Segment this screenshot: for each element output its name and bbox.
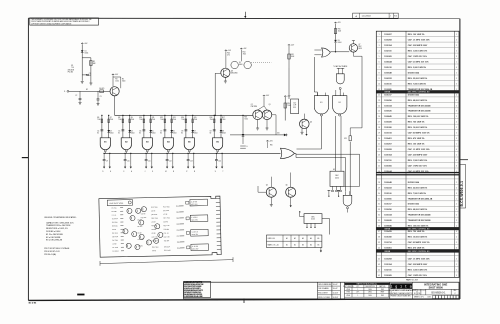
svg-text:R2 68K: R2 68K [112, 211, 117, 213]
svg-text:C13: C13 [190, 161, 193, 163]
svg-text:MFD 35V: MFD 35V [192, 248, 198, 250]
svg-text:3639: 3639 [358, 48, 362, 50]
svg-text:W506: W506 [346, 295, 350, 297]
svg-text:5: 5 [456, 78, 457, 80]
svg-text:4: 4 [456, 122, 457, 124]
svg-text:PULSE): PULSE) [68, 72, 74, 74]
svg-text:C9 82: C9 82 [152, 250, 156, 252]
svg-text:1002222: 1002222 [384, 78, 392, 80]
svg-text:+10V: +10V [269, 140, 273, 142]
svg-text:3: 3 [456, 220, 457, 222]
svg-text:N: N [173, 171, 174, 173]
svg-text:1: 1 [456, 198, 457, 200]
svg-text:+10V: +10V [287, 96, 291, 98]
svg-text:1105308: 1105308 [384, 237, 391, 239]
svg-text:1300365: 1300365 [384, 275, 392, 277]
svg-text:C5 82: C5 82 [151, 221, 155, 223]
svg-text:C2: C2 [75, 95, 77, 97]
svg-text:D7 664: D7 664 [138, 245, 143, 247]
svg-text:R15: R15 [194, 117, 197, 119]
svg-text:29: 29 [378, 187, 380, 189]
svg-text:1301954: 1301954 [384, 263, 392, 266]
svg-text:D10 664: D10 664 [164, 229, 170, 231]
svg-text:12: 12 [378, 94, 380, 96]
svg-text:3: 3 [456, 193, 457, 195]
svg-text:R16 7500: R16 7500 [163, 206, 170, 208]
svg-text:+10V: +10V [115, 74, 119, 76]
svg-text:RES. 7,500 1/4W 5%: RES. 7,500 1/4W 5% [408, 82, 427, 85]
svg-text:PARTS LIST: PARTS LIST [406, 278, 419, 281]
svg-text:R2: R2 [93, 61, 95, 63]
svg-text:B3: B3 [146, 141, 148, 143]
svg-text:R25: R25 [176, 224, 179, 226]
svg-text:RES. 1,500 1/4W 10%: RES. 1,500 1/4W 10% [408, 268, 428, 271]
svg-text:D664: D664 [85, 53, 89, 55]
svg-text:RES. 10,000 1/4W 5%: RES. 10,000 1/4W 5% [408, 126, 428, 129]
svg-text:OMNIB: OMNIB [384, 92, 391, 94]
svg-text:1000048: 1000048 [384, 71, 392, 74]
svg-text:DIODE D662: DIODE D662 [408, 94, 419, 96]
svg-text:C 15 6.8: C 15 6.8 [192, 246, 198, 248]
svg-text:DESCRIPTION: DESCRIPTION [366, 286, 375, 288]
svg-text:3: 3 [456, 165, 457, 167]
svg-text:470: 470 [227, 54, 230, 56]
svg-text:R22: R22 [176, 206, 179, 208]
svg-text:10-12-67: 10-12-67 [333, 297, 339, 299]
svg-text:D664: D664 [239, 64, 243, 66]
svg-text:B-CS-W506-0-1: B-CS-W506-0-1 [460, 181, 464, 207]
svg-text:10-9-67: 10-9-67 [333, 288, 338, 290]
svg-text:R16: R16 [210, 117, 213, 119]
svg-text:BS-W506-0-1: BS-W506-0-1 [432, 292, 447, 294]
svg-text:D664: D664 [131, 133, 135, 135]
svg-text:GND LUG: GND LUG [268, 238, 276, 240]
svg-text:100K: 100K [291, 56, 295, 58]
svg-text:C8 82: C8 82 [152, 233, 156, 235]
svg-text:C8: C8 [181, 131, 183, 133]
svg-text:D6 D664: D6 D664 [163, 210, 169, 212]
svg-text:1301954: 1301954 [384, 154, 392, 157]
svg-text:MFD 35V: MFD 35V [191, 204, 197, 206]
svg-text:Q5: Q5 [266, 185, 268, 187]
svg-text:1105100: 1105100 [384, 193, 391, 195]
svg-text:Q8: Q8 [231, 71, 233, 73]
svg-text:C5: C5 [118, 131, 120, 133]
svg-text:CAP. 220 MMFD 500V: CAP. 220 MMFD 500V [408, 263, 428, 266]
svg-text:1000020: 1000020 [384, 220, 392, 222]
svg-text:25: 25 [378, 165, 380, 167]
svg-text:1300208: 1300208 [384, 259, 392, 261]
svg-text:7500: 7500 [160, 119, 164, 121]
svg-text:Q6: Q6 [286, 185, 288, 187]
svg-text:DIODE D662: DIODE D662 [408, 204, 419, 206]
svg-text:32: 32 [378, 204, 380, 206]
svg-text:2: 2 [379, 40, 380, 42]
svg-text:2: 2 [456, 264, 457, 266]
svg-text:D11 664: D11 664 [164, 240, 170, 242]
svg-text:1105308: 1105308 [384, 127, 391, 129]
svg-text:R14: R14 [181, 117, 184, 119]
svg-text:4: 4 [456, 149, 457, 151]
svg-text:33: 33 [378, 209, 380, 211]
svg-text:2: 2 [456, 127, 457, 129]
svg-text:B3: B3 [302, 245, 304, 247]
svg-text:E2: E2 [86, 89, 88, 91]
svg-text:15: 15 [378, 111, 380, 113]
svg-text:DESC: DESC [368, 292, 372, 294]
svg-text:1300334: 1300334 [384, 214, 392, 217]
svg-text:R3: R3 [115, 79, 117, 81]
svg-text:E: E [110, 171, 111, 173]
svg-text:D10: D10 [277, 133, 280, 135]
svg-text:B4: B4 [310, 245, 312, 247]
svg-text:1000020: 1000020 [384, 111, 392, 113]
svg-text:16: 16 [378, 116, 380, 118]
svg-text:MFD 35V: MFD 35V [191, 219, 197, 221]
svg-text:UNLESS OTHERWISE INDICATED:: UNLESS OTHERWISE INDICATED: [44, 216, 77, 219]
svg-text:1500: 1500 [115, 81, 119, 83]
svg-text:TRANSISTOR DEC6534B: TRANSISTOR DEC6534B [408, 214, 431, 217]
svg-text:R9 750: R9 750 [137, 226, 142, 228]
svg-text:R6: R6 [97, 117, 99, 119]
svg-text:7500: 7500 [173, 119, 177, 121]
svg-text:CAP. 220 MMFD 500V: CAP. 220 MMFD 500V [408, 154, 428, 157]
svg-text:14: 14 [378, 105, 380, 107]
svg-text:B6: B6 [216, 141, 218, 143]
svg-text:3: 3 [456, 111, 457, 113]
svg-text:1103805: 1103805 [384, 198, 391, 200]
svg-text:CAP. 1 MFD 35V 10%: CAP. 1 MFD 35V 10% [408, 55, 427, 58]
svg-text:K: K [152, 171, 153, 173]
svg-text:R25: R25 [344, 138, 347, 140]
svg-text:EQUIPMENT CORPORATION: EQUIPMENT CORPORATION [389, 289, 414, 292]
svg-text:2: 2 [456, 72, 457, 74]
svg-text:R1: R1 [71, 65, 73, 67]
svg-text:FIRST USED ON: FIRST USED ON [343, 286, 353, 288]
svg-text:1105317: 1105317 [384, 94, 391, 96]
svg-text:1300296: 1300296 [384, 209, 392, 211]
svg-text:ONE SHOT W506: ONE SHOT W506 [109, 203, 123, 205]
svg-text:30: 30 [378, 193, 380, 195]
svg-text:B2: B2 [294, 245, 296, 247]
svg-text:R14: R14 [243, 51, 246, 53]
svg-text:DEC2894: DEC2894 [251, 106, 257, 108]
svg-text:7500: 7500 [118, 119, 122, 121]
svg-text:C 15 6.8: C 15 6.8 [191, 201, 197, 203]
svg-text:G-5DPER8MH1DGALG3BE: G-5DPER8MH1DGALG3BE [184, 295, 204, 298]
svg-text:RES. 7,500 1/4W 5%: RES. 7,500 1/4W 5% [408, 192, 427, 195]
svg-text:1302110: 1302110 [384, 269, 391, 271]
svg-text:RES. 22,000 1/4W 5%: RES. 22,000 1/4W 5% [408, 186, 428, 189]
svg-text:38: 38 [378, 237, 380, 239]
svg-text:H: H [131, 171, 132, 173]
svg-text:DIODE D664: DIODE D664 [408, 71, 420, 74]
svg-text:R23: R23 [176, 212, 179, 214]
svg-text:8: 8 [379, 72, 380, 74]
svg-text:NUMBER: NUMBER [421, 290, 426, 292]
svg-text:E1: E1 [320, 102, 322, 104]
svg-text:T: T [222, 171, 223, 173]
svg-text:B2: B2 [125, 141, 127, 143]
svg-text:34: 34 [378, 215, 380, 217]
svg-text:C10 82: C10 82 [163, 221, 168, 223]
svg-text:1: 1 [379, 34, 380, 36]
svg-text:RES. 100 1/4W 5%: RES. 100 1/4W 5% [408, 33, 425, 36]
svg-text:18: 18 [378, 127, 380, 129]
svg-text:1300334: 1300334 [384, 104, 392, 107]
svg-text:R18: R18 [291, 54, 294, 56]
svg-text:+10V: +10V [243, 48, 247, 50]
svg-text:5: 5 [456, 269, 457, 271]
svg-text:3: 3 [456, 83, 457, 85]
svg-text:1 UF: 1 UF [293, 105, 296, 107]
svg-text:82: 82 [118, 133, 120, 135]
svg-text:C12: C12 [169, 161, 172, 163]
svg-text:F: F [123, 171, 124, 173]
svg-text:Q7: Q7 [358, 44, 360, 46]
svg-text:RES. 1,500 1/4W 10%: RES. 1,500 1/4W 10% [408, 159, 428, 162]
svg-text:7500: 7500 [210, 119, 214, 121]
svg-text:R12 7500: R12 7500 [151, 207, 158, 209]
svg-text:5: 5 [456, 215, 457, 217]
svg-text:C14: C14 [218, 161, 221, 163]
svg-text:R17: R17 [222, 117, 225, 119]
svg-text:E1: E1 [339, 102, 341, 104]
svg-text:R7: R7 [110, 117, 112, 119]
svg-text:RES. 68,000 1/4W 5%: RES. 68,000 1/4W 5% [408, 208, 428, 211]
svg-text:TRANSISTOR DEC6534B: TRANSISTOR DEC6534B [408, 104, 431, 107]
svg-text:PIN 7 MOST NEG VOLTAGE: PIN 7 MOST NEG VOLTAGE [44, 247, 70, 250]
svg-text:31: 31 [378, 198, 380, 200]
svg-text:7: 7 [379, 67, 380, 69]
svg-text:CAP. 82 MMFD 100V 5%: CAP. 82 MMFD 100V 5% [408, 132, 430, 135]
svg-text:4: 4 [456, 204, 457, 206]
svg-text:D664: D664 [152, 133, 156, 135]
svg-text:1: 1 [456, 144, 457, 146]
svg-text:1: 1 [456, 34, 457, 36]
svg-text:C6: C6 [139, 131, 141, 133]
svg-text:R5: R5 [122, 79, 124, 81]
svg-text:17: 17 [378, 122, 380, 124]
svg-text:RESISTORS = 1/4W; 5%: RESISTORS = 1/4W; 5% [46, 228, 68, 230]
svg-text:R16: R16 [338, 28, 341, 30]
svg-text:1103724: 1103724 [384, 241, 392, 244]
svg-text:5: 5 [456, 242, 457, 244]
svg-text:D3 D664: D3 D664 [113, 251, 119, 253]
svg-text:C3: C3 [100, 96, 102, 98]
svg-text:TRANSISTOR DEC2894-3B: TRANSISTOR DEC2894-3B [408, 197, 433, 200]
svg-text:E: E [247, 146, 248, 148]
svg-text:REV: REV [381, 289, 384, 291]
svg-text:C3 82: C3 82 [112, 243, 116, 245]
svg-text:C15: C15 [293, 103, 296, 105]
svg-text:1-10-3604: 1-10-3604 [362, 16, 372, 18]
svg-text:C 15 6.8: C 15 6.8 [191, 217, 197, 219]
svg-text:+10V: +10V [228, 50, 232, 52]
svg-text:C7: C7 [160, 131, 162, 133]
svg-text:1300208: 1300208 [384, 40, 392, 42]
svg-text:R20: R20 [287, 103, 290, 105]
svg-text:RES. 100,000 1/4W 5%: RES. 100,000 1/4W 5% [408, 115, 429, 118]
svg-text:OMNIB: OMNIB [384, 228, 391, 230]
svg-text:1300365: 1300365 [384, 165, 392, 167]
svg-text:9: 9 [379, 78, 380, 80]
svg-text:P: P [186, 171, 187, 173]
svg-text:D6: D6 [173, 131, 175, 133]
svg-text:D664: D664 [173, 133, 177, 135]
svg-text:R4 470: R4 470 [99, 88, 104, 90]
svg-text:1000048: 1000048 [384, 181, 392, 184]
svg-text:+10V: +10V [291, 44, 295, 46]
svg-text:R13: R13 [173, 117, 176, 119]
svg-text:42: 42 [378, 259, 380, 261]
svg-text:4: 4 [379, 51, 380, 53]
svg-text:1300401: 1300401 [384, 247, 392, 250]
svg-text:.01: .01 [89, 75, 91, 77]
svg-text:5: 5 [456, 160, 457, 162]
svg-text:Q3: Q3 [269, 104, 271, 106]
svg-text:+10V: +10V [337, 22, 341, 24]
svg-text:RES. 10,000 1/4W 5%: RES. 10,000 1/4W 5% [408, 236, 428, 239]
svg-text:37: 37 [378, 231, 380, 233]
svg-text:7500: 7500 [97, 119, 101, 121]
svg-text:RES. 22,000 1/4W 5%: RES. 22,000 1/4W 5% [408, 77, 428, 80]
svg-text:R9: R9 [131, 117, 133, 119]
svg-text:1105317: 1105317 [384, 204, 391, 206]
svg-text:DEC SPEC CONTROL NO: DEC SPEC CONTROL NO [408, 92, 430, 94]
svg-text:D8: D8 [222, 131, 224, 133]
svg-text:B3 D 85: B3 D 85 [29, 302, 37, 304]
svg-text:45: 45 [378, 275, 380, 277]
svg-text:R17 7500: R17 7500 [163, 217, 170, 219]
svg-text:D664: D664 [222, 133, 226, 135]
svg-text:R24: R24 [176, 218, 179, 220]
svg-text:C1: C1 [89, 73, 91, 75]
svg-text:7500: 7500 [131, 119, 135, 121]
svg-text:CAP. .01 MFD 100V 20%: CAP. .01 MFD 100V 20% [408, 39, 430, 42]
svg-text:82: 82 [97, 133, 99, 135]
svg-text:7500: 7500 [222, 119, 226, 121]
svg-text:3: 3 [456, 138, 457, 140]
svg-text:RES. 100 1/4W 5%: RES. 100 1/4W 5% [408, 143, 425, 146]
svg-text:R4 3000: R4 3000 [112, 225, 118, 227]
svg-text:OMNIB: OMNIB [384, 251, 391, 253]
svg-text:68K: 68K [93, 63, 96, 65]
svg-text:CAP. 6.8 MFD 35V 10%: CAP. 6.8 MFD 35V 10% [408, 61, 429, 64]
svg-text:2: 2 [456, 100, 457, 102]
svg-text:1001610: 1001610 [384, 67, 392, 69]
svg-text:1: 1 [456, 116, 457, 118]
svg-text:R26: R26 [177, 230, 180, 232]
svg-text:RES. 470 1/4W 5%: RES. 470 1/4W 5% [408, 137, 425, 140]
svg-text:10-9-67: 10-9-67 [333, 284, 338, 286]
svg-text:E3: E3 [333, 169, 335, 171]
svg-text:R10: R10 [139, 117, 142, 119]
svg-text:1301954: 1301954 [384, 44, 392, 47]
svg-text:44: 44 [378, 269, 380, 271]
svg-text:TRANSISTOR DEC3639B: TRANSISTOR DEC3639B [408, 219, 431, 222]
svg-text:1302110: 1302110 [384, 51, 391, 53]
svg-text:3: 3 [456, 56, 457, 58]
svg-text:J: J [390, 16, 391, 18]
svg-text:2: 2 [456, 45, 457, 47]
svg-text:7500: 7500 [139, 119, 143, 121]
svg-text:RES. 3,000 1/4W 5%: RES. 3,000 1/4W 5% [408, 66, 427, 69]
svg-text:PROD. S.OLSEN: PROD. S.OLSEN [318, 297, 330, 299]
svg-text:R13 7500: R13 7500 [151, 218, 158, 220]
svg-text:D5: D5 [239, 62, 241, 64]
svg-text:82: 82 [210, 133, 212, 135]
svg-text:D5: D5 [152, 131, 154, 133]
svg-text:1300296: 1300296 [384, 100, 392, 102]
svg-text:R10: R10 [227, 52, 230, 54]
svg-text:PIN 4 MOST+10V: PIN 4 MOST+10V [44, 251, 60, 253]
svg-text:S: S [215, 171, 216, 173]
svg-text:TRANSISTOR DEC3639B: TRANSISTOR DEC3639B [408, 110, 431, 113]
svg-text:7500: 7500 [244, 119, 248, 121]
svg-text:D2 D664: D2 D664 [112, 236, 118, 238]
svg-text:C6 82: C6 82 [138, 232, 142, 234]
svg-text:D8 D664: D8 D664 [164, 246, 170, 248]
svg-text:28: 28 [378, 182, 380, 184]
svg-text:1300401: 1300401 [384, 137, 392, 140]
svg-text:10-10-67: 10-10-67 [333, 293, 339, 295]
svg-text:4: 4 [456, 259, 457, 261]
svg-text:D4: D4 [131, 131, 133, 133]
svg-text:4: 4 [456, 94, 457, 96]
svg-text:5: 5 [379, 56, 380, 58]
svg-text:C4: C4 [97, 131, 99, 133]
svg-text:35V: 35V [293, 107, 296, 109]
svg-text:C11: C11 [148, 161, 151, 163]
svg-text:RES. 750 1/4W 5%: RES. 750 1/4W 5% [408, 121, 425, 124]
svg-text:5: 5 [456, 187, 457, 189]
svg-text:22: 22 [378, 149, 380, 151]
svg-text:1305644: 1305644 [384, 61, 392, 64]
svg-text:750: 750 [71, 67, 74, 69]
svg-text:82: 82 [139, 133, 141, 135]
svg-text:10: 10 [378, 83, 380, 85]
svg-text:7500: 7500 [243, 53, 247, 55]
svg-text:1500: 1500 [338, 30, 342, 32]
svg-text:Q4: Q4 [310, 122, 312, 124]
svg-text:1: 1 [456, 62, 457, 64]
svg-text:43: 43 [378, 264, 380, 266]
svg-text:DEC2894: DEC2894 [231, 73, 238, 75]
svg-text:82: 82 [160, 133, 162, 135]
svg-text:7/16: 7/16 [394, 16, 397, 18]
svg-text:SHEET 1 OF 1: SHEET 1 OF 1 [414, 296, 424, 298]
svg-text:R22 7.5K: R22 7.5K [164, 236, 170, 238]
svg-text:R19 7.5K: R19 7.5K [163, 225, 169, 227]
svg-text:DEC SPEC CONTROL NO: DEC SPEC CONTROL NO [408, 228, 430, 230]
svg-text:RES. 1,500 1/4W 10%: RES. 1,500 1/4W 10% [408, 50, 428, 53]
svg-text:SIZE: SIZE [413, 290, 416, 292]
svg-text:7500: 7500 [181, 119, 185, 121]
svg-text:7500: 7500 [152, 119, 156, 121]
svg-text:20: 20 [378, 138, 380, 140]
svg-text:4102: 4102 [311, 219, 315, 221]
svg-text:1302110: 1302110 [384, 160, 391, 162]
svg-text:19: 19 [378, 133, 380, 135]
svg-text:D664: D664 [338, 42, 342, 44]
svg-text:C1 .01: C1 .01 [112, 215, 117, 217]
svg-text:DIODES = D664: DIODES = D664 [46, 231, 61, 233]
svg-text:R6 7500: R6 7500 [112, 240, 118, 242]
svg-text:R12: R12 [160, 117, 163, 119]
svg-text:R7 7500: R7 7500 [112, 247, 118, 249]
svg-text:R14 3K: R14 3K [151, 225, 156, 227]
